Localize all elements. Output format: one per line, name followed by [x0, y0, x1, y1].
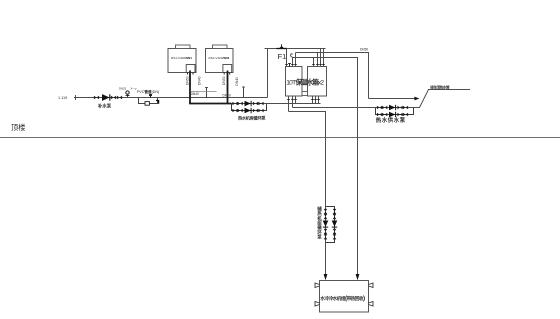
valve L-lower-c [253, 109, 258, 113]
valve R-lower-b [382, 113, 387, 117]
wire left pump branch outline [232, 104, 267, 111]
wire bypass loop [139, 98, 158, 104]
stub tank1 cap [288, 64, 291, 67]
valve L-lower-a [232, 109, 237, 113]
svg-text:DN50: DN50 [222, 76, 226, 85]
riser tank2 feed a [320, 49, 322, 67]
sub-box unit 1 [186, 65, 195, 73]
riser tank2 to line B [313, 58, 315, 67]
valve aux-main-a [324, 209, 328, 214]
floor line roof slab [0, 137, 560, 139]
wire line A supply [296, 53, 369, 99]
heat pump unit 2 box [206, 49, 234, 73]
stub tank1 bottom drops [288, 96, 290, 112]
arrow into chiller right [356, 274, 360, 280]
valve L-upper-d [258, 102, 263, 106]
valve R-upper-b [382, 106, 387, 110]
tank connector [302, 92, 308, 96]
valve on bypassed section [149, 94, 152, 98]
chiller box [320, 281, 369, 313]
riser stub b [242, 87, 245, 98]
stub tank2 bottom drops [312, 96, 314, 104]
wire thick drop unit 1 [189, 71, 191, 104]
valve R-upper-d [403, 106, 408, 110]
node start tick [75, 95, 77, 100]
stub chiller right top [369, 283, 374, 288]
stub chiller left top [315, 283, 320, 288]
svg-text:DN40: DN40 [198, 76, 202, 85]
meter in bypass [145, 102, 149, 106]
valve L-upper-a [232, 102, 237, 106]
wire chiller supply line [289, 112, 326, 275]
valve aux-main-b [324, 214, 328, 219]
svg-text:PVC管道(DN): PVC管道(DN) [137, 89, 159, 94]
stub pins unit 2 [224, 73, 230, 75]
svg-text:RSJ-V420/SN1: RSJ-V420/SN1 [171, 56, 192, 60]
stub chiller right bottom [369, 302, 374, 307]
valve aux-branch-b [333, 214, 337, 219]
svg-text:顶楼: 顶楼 [11, 123, 25, 132]
pump aux main [323, 221, 329, 228]
svg-text:1.119: 1.119 [58, 96, 67, 100]
svg-text:辅热机组循环泵: 辅热机组循环泵 [317, 205, 322, 240]
svg-text:DN40: DN40 [191, 92, 199, 96]
stub pins unit 1 [188, 73, 194, 75]
riser tank1 feed [286, 49, 288, 67]
svg-text:F1: F1 [278, 52, 287, 61]
svg-text:RSJ-V420/SN1: RSJ-V420/SN1 [209, 56, 230, 60]
arrow into chiller left [324, 274, 328, 280]
valve aux-branch-d [333, 234, 337, 239]
stub chiller left bottom [315, 302, 320, 307]
pump circulation upper [245, 101, 252, 107]
svg-text:DN25: DN25 [119, 86, 127, 90]
wire line B aux [293, 58, 358, 275]
pump supply upper [389, 105, 396, 111]
wire return line with arrow [369, 98, 417, 100]
riser stub a [205, 88, 208, 98]
wire thick drop unit 2 [227, 71, 229, 104]
valve L-lower-b [238, 109, 243, 113]
svg-text:DN40: DN40 [223, 93, 231, 97]
label DN40 on line a [191, 92, 217, 97]
label DN40 on line b [223, 93, 231, 97]
wire feed top line [265, 48, 326, 50]
tank 2 [308, 67, 327, 97]
wire thick header [189, 103, 231, 105]
handle unit 1 [176, 45, 191, 49]
wire aux pump branch outline [326, 207, 335, 243]
valve V3 [117, 96, 122, 100]
valve R-upper-a [377, 106, 382, 110]
valve aux-branch-a [333, 209, 337, 214]
valve R-upper-c [397, 106, 402, 110]
svg-text:热水机房循环泵: 热水机房循环泵 [238, 114, 266, 121]
svg-text:10T保温水箱x2: 10T保温水箱x2 [286, 78, 324, 87]
wire makeup riser [267, 49, 269, 98]
wire circulation line [232, 103, 321, 105]
riser tank2 to line A [317, 53, 319, 67]
stub caps tank tops [285, 64, 324, 66]
tank 1 [286, 67, 303, 97]
svg-text:热水供水泵: 热水供水泵 [376, 116, 406, 124]
sub-box unit 2 [223, 65, 232, 73]
riser tank2 feed b [323, 49, 325, 67]
svg-text:接生活热水管: 接生活热水管 [430, 84, 450, 89]
valve aux-main-c [324, 229, 328, 234]
svg-text:补水泵: 补水泵 [97, 103, 112, 110]
heat pump unit 1 box [168, 49, 196, 73]
stub caps tank1 bottom [287, 99, 296, 101]
pump circulation lower [245, 108, 252, 114]
valve V2 [111, 96, 116, 100]
elbow mark bypass right [156, 101, 159, 104]
valve R-lower-c [397, 113, 402, 117]
valve R-lower-a [377, 113, 382, 117]
svg-text:DN50: DN50 [360, 48, 368, 52]
svg-text:DN40: DN40 [235, 77, 239, 86]
valve V1 [94, 96, 99, 100]
valve L-lower-d [258, 109, 263, 113]
valve R-lower-d [403, 113, 408, 117]
riser tank1 to line A [295, 53, 297, 67]
riser tank1 to line B with jog [290, 54, 292, 67]
pump 补水泵 [102, 94, 110, 101]
valve L-upper-b [238, 102, 243, 106]
gauge on line [126, 91, 130, 98]
wire suction header [293, 107, 376, 109]
valve aux-branch-c [333, 229, 337, 234]
stub caps tank2 bottom [311, 99, 319, 101]
pump aux branch [332, 221, 338, 228]
wire right pump branch outline [376, 108, 414, 115]
pump supply lower [389, 112, 396, 118]
wire makeup main [74, 97, 268, 99]
valve L-upper-c [253, 102, 258, 106]
wire discharge riser diagonal [414, 90, 471, 108]
svg-text:DN50: DN50 [185, 76, 189, 85]
air vent F1 [277, 44, 288, 48]
valve aux-main-d [324, 234, 328, 239]
handle unit 2 [213, 45, 228, 49]
